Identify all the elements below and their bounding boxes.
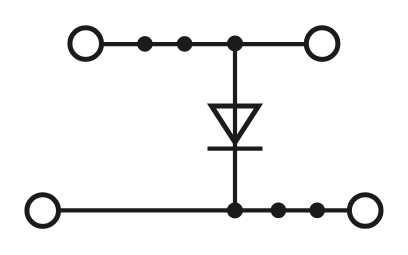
contact dot bottom 2 [309, 203, 325, 219]
terminal bottom-left [27, 195, 59, 227]
contact dot top 1 [137, 36, 153, 52]
junction top (node A) [227, 36, 243, 52]
junction bottom (node B) [227, 202, 243, 218]
contact dot top 2 [177, 36, 193, 52]
wire bottom horizontal [58, 208, 349, 212]
wire top horizontal [100, 42, 306, 46]
diode D1 triangle (anode, pointing down) [212, 106, 259, 142]
terminal top-left [70, 28, 102, 60]
terminal bottom-right [349, 195, 381, 227]
wire vertical (top junction to bottom junction through diode) [233, 42, 237, 212]
contact dot bottom 1 [271, 203, 287, 219]
terminal top-right [306, 28, 338, 60]
diode D1 cathode bar [208, 147, 263, 151]
